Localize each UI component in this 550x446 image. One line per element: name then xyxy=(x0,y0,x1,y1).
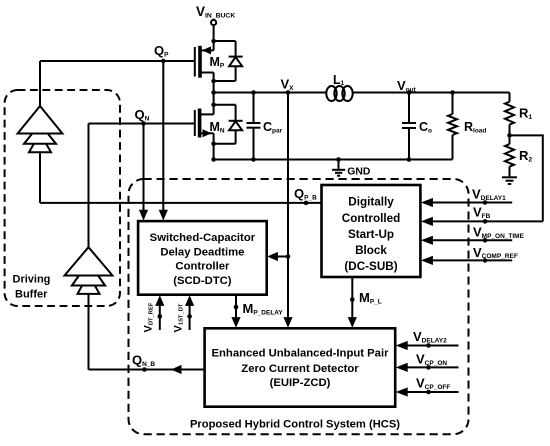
svg-text:Zero Current Detector: Zero Current Detector xyxy=(241,363,359,375)
junction dot QPB xyxy=(304,201,309,206)
junction dot VX sense branch xyxy=(286,254,291,259)
svg-text:Block: Block xyxy=(355,244,387,257)
dashed box HCS xyxy=(129,179,469,434)
svg-text:Switched-Capacitor: Switched-Capacitor xyxy=(150,232,256,244)
block EUIP-ZCD xyxy=(205,328,396,406)
junction dot Cpar top xyxy=(251,90,256,95)
body diode of MP xyxy=(214,41,243,81)
input VDELAY2 xyxy=(404,345,459,347)
terminal VIN_BUCK xyxy=(211,20,216,25)
svg-text:Buffer: Buffer xyxy=(15,289,48,301)
block DC-SUB xyxy=(322,185,421,277)
svg-text:Proposed Hybrid Control System: Proposed Hybrid Control System (HCS) xyxy=(190,419,400,431)
wire QPB xyxy=(40,202,322,204)
block SCD-DTC xyxy=(138,221,267,295)
wire feedback tap xyxy=(510,135,543,221)
buffer chain bottom (drives QN) xyxy=(65,124,113,370)
input VCP_OFF xyxy=(404,391,459,393)
junction dot divider tap xyxy=(507,133,512,138)
wire L1 to Vout rail xyxy=(352,92,510,94)
wire VX rail xyxy=(214,92,327,94)
svg-text:Digitally: Digitally xyxy=(348,196,394,209)
dashed box Driving Buffer xyxy=(5,90,120,306)
resistor R2 xyxy=(505,135,514,176)
svg-text:Enhanced Unbalanced-Input Pair: Enhanced Unbalanced-Input Pair xyxy=(211,348,389,360)
wire VX branch into SCD-DTC xyxy=(276,256,288,258)
svg-text:(EUIP-ZCD): (EUIP-ZCD) xyxy=(270,377,331,389)
wire VX sense line xyxy=(287,93,289,321)
wire QNB xyxy=(89,369,205,371)
junction dot MP drain xyxy=(211,39,216,44)
input VCP_ON xyxy=(404,366,459,368)
junction dot QP xyxy=(161,59,166,64)
junction dot VX sense xyxy=(286,90,291,95)
buffer chain top (drives QP) xyxy=(18,61,63,203)
inductor L1 xyxy=(326,86,352,101)
junction dot VX-MN xyxy=(211,90,216,95)
junction dot Co bottom xyxy=(407,157,412,162)
transistor MN xyxy=(195,93,214,160)
junction dot GND stub xyxy=(336,157,341,162)
capacitor Cpar xyxy=(247,93,261,160)
wire MP source to VX rail xyxy=(213,81,215,93)
junction dot MN drain xyxy=(211,102,216,107)
input VFB xyxy=(430,220,543,222)
junction dot Cpar bottom xyxy=(251,157,256,162)
wire QN rail xyxy=(89,123,195,125)
svg-text:Controlled: Controlled xyxy=(342,212,400,225)
wire QN branch into SCD-DTC xyxy=(143,124,145,213)
junction dot Co top xyxy=(407,90,412,95)
signal V1ST_DT xyxy=(189,304,191,330)
ground GND xyxy=(332,160,345,176)
junction dot MN source xyxy=(211,142,216,147)
wire QP rail xyxy=(40,60,195,62)
svg-text:Driving: Driving xyxy=(13,274,51,286)
svg-text:(DC-SUB): (DC-SUB) xyxy=(344,260,397,273)
wire ground rail xyxy=(214,159,453,161)
junction dot QN xyxy=(141,121,146,126)
wire QP branch into SCD-DTC xyxy=(162,61,164,212)
svg-text:Delay Deadtime: Delay Deadtime xyxy=(160,246,244,258)
svg-text:Start-Up: Start-Up xyxy=(348,228,394,241)
junction dot MP source xyxy=(211,79,216,84)
transistor MP xyxy=(195,41,214,81)
capacitor Co xyxy=(402,93,416,160)
svg-text:Controller: Controller xyxy=(175,261,230,273)
input VCOMP_REF xyxy=(430,259,512,261)
signal MP_L xyxy=(351,277,353,320)
body diode of MN xyxy=(214,105,243,144)
signal MP_DELAY xyxy=(235,295,237,320)
ground under R2 xyxy=(502,177,517,184)
junction dot MN source rail xyxy=(211,157,216,162)
junction dot Rload top xyxy=(450,90,455,95)
resistor Rload xyxy=(448,93,457,160)
resistor R1 xyxy=(505,93,514,136)
svg-text:(SCD-DTC): (SCD-DTC) xyxy=(173,275,232,287)
svg-text:GND: GND xyxy=(347,166,371,177)
wire VIN to MP drain xyxy=(213,26,215,42)
input VMP_ON_TIME xyxy=(430,239,512,241)
input VDELAY1 xyxy=(430,202,512,204)
signal VDT_REF xyxy=(159,304,161,330)
